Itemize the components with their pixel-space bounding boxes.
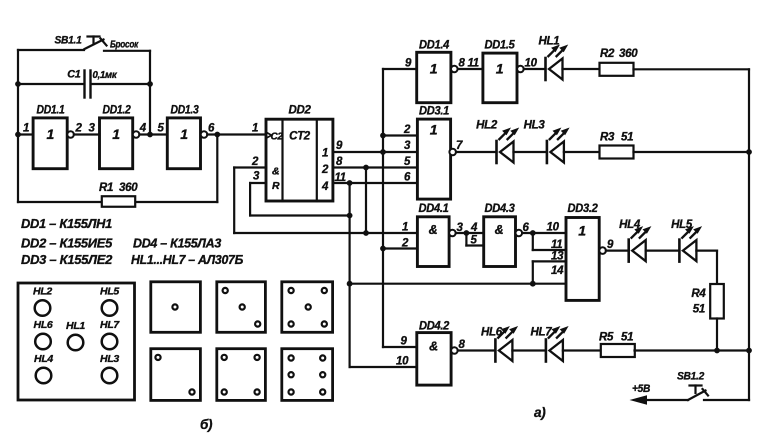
wire: HL4 to HL5 — [646, 250, 680, 252]
svg-text:DD2: DD2 — [288, 105, 311, 117]
svg-text:C1: C1 — [67, 69, 80, 81]
inversion circle DD3.2 output — [599, 247, 606, 254]
svg-text:DD4.2: DD4.2 — [419, 321, 450, 333]
wire: C1 row left segment — [18, 83, 83, 85]
svg-text:Бросок: Бросок — [110, 40, 139, 51]
inversion circle DD1.2 output — [133, 131, 140, 138]
inversion circle DD3.1 output — [449, 149, 456, 156]
junction: left rail / C1 — [15, 81, 21, 87]
junction: bus2 on DD4.1 pin1 row — [363, 230, 369, 236]
resistor R2 — [600, 63, 634, 76]
wire: bus2 vertical — [365, 168, 367, 234]
svg-text:DD4.3: DD4.3 — [485, 203, 516, 215]
wire: left rail vertical — [17, 50, 19, 202]
svg-text:HL7: HL7 — [100, 319, 120, 331]
svg-text:HL3: HL3 — [100, 353, 119, 365]
NOR gate DD3.1 — [417, 119, 450, 199]
wire: SB1.1 right contact to corner — [104, 50, 150, 52]
wire: R5 to right rail — [635, 349, 750, 351]
svg-text:10: 10 — [547, 222, 560, 234]
svg-text:R4: R4 — [691, 288, 706, 300]
junction: bus1 at pin14 row — [347, 281, 353, 287]
wire: DD4.3 out to DD3.2 pin10 — [522, 232, 566, 234]
svg-text:SB1.2: SB1.2 — [677, 371, 704, 383]
wire: stub into DD3.2 pin11 — [533, 249, 566, 251]
svg-text:HL6: HL6 — [481, 327, 503, 339]
LED panel layout (node b) — [18, 283, 135, 400]
svg-text:DD3 – К155ЛЕ2: DD3 – К155ЛЕ2 — [21, 252, 113, 267]
svg-text:10: 10 — [396, 356, 409, 368]
svg-text:DD3.2: DD3.2 — [568, 203, 599, 215]
svg-text:R5: R5 — [599, 332, 614, 344]
wire: DD3.1 out to HL2 — [456, 151, 497, 153]
LED HL3 — [547, 128, 570, 164]
wire: branch down to pin11 — [532, 233, 534, 250]
svg-text:DD3.1: DD3.1 — [419, 106, 449, 118]
wire: DD3.2 out to HL4 — [606, 250, 629, 252]
inversion circle DD1.4 output — [451, 66, 458, 73]
wire: DD4.2 out to HL6 — [458, 349, 496, 351]
wire: DD2 pin3 loop vertical — [249, 183, 251, 216]
wire: stub into DD4.3 pin5 — [466, 244, 483, 246]
svg-text:1: 1 — [112, 126, 120, 142]
resistor R3 — [600, 146, 634, 159]
junction: R1 feedback tap — [214, 132, 220, 138]
svg-text:2: 2 — [251, 156, 259, 168]
svg-text:1: 1 — [402, 222, 408, 234]
svg-text:DD4.1: DD4.1 — [419, 203, 449, 215]
svg-text:360: 360 — [119, 182, 138, 194]
wire: right rail vertical — [748, 69, 750, 400]
svg-text:CT2: CT2 — [289, 131, 311, 143]
wire: top wire to SB1.1 left contact — [18, 49, 84, 51]
svg-text:51: 51 — [621, 132, 633, 144]
svg-text:HL3: HL3 — [524, 120, 546, 132]
inversion circle DD1.3 output — [201, 131, 208, 138]
inverter DD1.3 — [167, 118, 200, 169]
counter DD2 body — [266, 119, 333, 201]
LED HL5 — [679, 226, 702, 262]
svg-text:9: 9 — [336, 140, 343, 152]
svg-text:9: 9 — [607, 239, 614, 251]
svg-text:360: 360 — [619, 48, 638, 60]
DD2 C2 input marker — [267, 132, 272, 138]
svg-text:11: 11 — [551, 239, 562, 251]
die face 5 — [282, 282, 333, 333]
junction: right vertical / C1 — [147, 81, 153, 87]
wire: DD1.5 to HL1 — [524, 68, 546, 70]
svg-text:0,1мк: 0,1мк — [93, 70, 118, 81]
svg-text:R2: R2 — [600, 48, 615, 60]
svg-text:HL1: HL1 — [66, 320, 85, 332]
svg-text:7: 7 — [456, 140, 463, 152]
wire: branch down to pin5 — [465, 233, 467, 246]
wire: DD2 pin2 stub — [234, 166, 266, 168]
wire: pin13 vertical to pin14 row — [532, 261, 534, 283]
wire: DD2 pin3 stub — [250, 182, 266, 184]
inversion circle DD4.3 output — [516, 230, 523, 237]
svg-text:10: 10 — [525, 58, 538, 70]
wire: DD3.1 pin2 stub from bus3 — [383, 134, 417, 136]
wire: DD2 pin3 loop horizontal to bus1 — [250, 214, 350, 216]
svg-text:4: 4 — [321, 181, 329, 193]
resistor R1 — [102, 196, 135, 207]
wire: row out4 (pin11 to DD3.1 pin6) — [333, 182, 418, 184]
svg-text:11: 11 — [468, 58, 479, 70]
die face 4 — [217, 349, 266, 401]
svg-text:3: 3 — [253, 171, 260, 183]
svg-text:8: 8 — [459, 339, 466, 351]
junction: bus3 on out1 row — [380, 149, 386, 155]
svg-text:1: 1 — [252, 123, 258, 135]
svg-text:9: 9 — [401, 336, 408, 348]
die face 6 — [282, 349, 333, 401]
LED HL2 — [497, 128, 520, 164]
junction: DD4.3 out branch — [530, 230, 536, 236]
svg-text:5: 5 — [158, 123, 165, 135]
wire: HL1 to R2 — [563, 68, 600, 70]
svg-text:DD1.4: DD1.4 — [419, 40, 450, 52]
wire: HL6 to HL7 — [512, 349, 546, 351]
inversion circle DD4.2 output — [451, 347, 458, 354]
junction: bus3 at DD4.1 pin2 — [380, 246, 386, 252]
inversion circle DD1.5 output — [517, 66, 524, 73]
wire: SB1.2 to +5V arrow — [646, 399, 688, 401]
svg-text:&: & — [495, 223, 504, 237]
svg-text:1: 1 — [46, 126, 54, 142]
junction: right rail / R3 row — [746, 149, 752, 155]
svg-text:9: 9 — [405, 58, 412, 70]
svg-text:1: 1 — [322, 148, 328, 160]
wire: R4 to bottom row — [716, 319, 718, 351]
svg-text:HL4: HL4 — [34, 353, 53, 365]
svg-text:HL6: HL6 — [34, 319, 53, 331]
inverter DD1.4 — [417, 52, 451, 102]
svg-text:HL5: HL5 — [671, 219, 693, 231]
resistor R4 (vertical) — [710, 284, 724, 319]
junction: pin3 loop on bus1 — [347, 213, 353, 219]
svg-text:2: 2 — [403, 124, 411, 136]
svg-text:DD1.3: DD1.3 — [171, 105, 200, 117]
svg-text:8: 8 — [459, 58, 466, 70]
wire: vertical down to R4 — [716, 251, 718, 284]
wire: R1 row — [18, 201, 217, 203]
wire: bus3 vertical — [382, 69, 384, 347]
svg-text:а): а) — [534, 405, 546, 420]
svg-text:5: 5 — [404, 156, 411, 168]
wire: R3 to right rail — [634, 151, 750, 153]
svg-text:R3: R3 — [600, 132, 615, 144]
NAND gate DD4.1 — [417, 217, 449, 267]
junction: bus1 on out4 row — [347, 180, 353, 186]
wire: DD1.4 to DD1.5 — [458, 68, 483, 70]
svg-text:R: R — [272, 180, 280, 192]
svg-text:+5В: +5В — [632, 383, 650, 395]
wire: DD1.1 to DD1.2 — [74, 133, 100, 135]
LED HL4 — [629, 226, 652, 262]
svg-text:б): б) — [200, 417, 213, 432]
svg-text:&: & — [272, 166, 279, 178]
switch SB1.1 — [85, 37, 107, 50]
wire: row out1 (pin9 to DD3.1 pin3) — [333, 151, 418, 153]
svg-text:HL1...HL7 – АЛ307Б: HL1...HL7 – АЛ307Б — [131, 252, 243, 267]
svg-text:2: 2 — [321, 164, 329, 176]
wire: R2 to right rail — [634, 68, 750, 70]
LED HL1 — [546, 45, 569, 81]
wire: DD1.2 to DD1.3 — [139, 133, 167, 135]
wire: rail corner to SB1.2 — [704, 399, 749, 401]
svg-text:8: 8 — [336, 156, 343, 168]
svg-text:DD1.1: DD1.1 — [37, 105, 65, 117]
resistor R5 — [601, 344, 635, 357]
wire: bus3 corner to DD4.2 pin9 — [383, 346, 417, 348]
die face 3 — [217, 282, 266, 333]
svg-text:3: 3 — [404, 140, 411, 152]
svg-text:4: 4 — [139, 123, 147, 135]
+5V supply arrow — [630, 395, 648, 404]
svg-text:1: 1 — [430, 122, 438, 138]
svg-text:51: 51 — [693, 304, 705, 316]
capacitor C1 — [85, 71, 91, 98]
LED HL7 — [546, 326, 569, 362]
die face 1 — [151, 282, 201, 333]
svg-text:1: 1 — [23, 123, 29, 135]
junction: bus3 top corner at DD3.1 pin2 — [380, 133, 386, 139]
switch SB1.2 — [688, 386, 708, 401]
wire: bus3 to DD1.4 input — [383, 68, 417, 70]
svg-text:6: 6 — [208, 123, 215, 135]
svg-text:2: 2 — [75, 123, 83, 135]
svg-text:51: 51 — [621, 332, 633, 344]
svg-text:&: & — [429, 223, 438, 237]
junction: right rail / bottom row — [746, 348, 752, 354]
wire: C1 row right segment — [93, 83, 151, 85]
svg-text:DD4 – К155ЛА3: DD4 – К155ЛА3 — [133, 236, 222, 251]
svg-text:DD1 – К155ЛН1: DD1 – К155ЛН1 — [21, 216, 112, 231]
svg-text:4: 4 — [470, 222, 478, 234]
junction: pin13/pin14 join — [530, 281, 536, 287]
junction: bus2 on out2 row — [363, 165, 369, 171]
wire: vertical from switch down to pin4/5 node — [149, 51, 151, 135]
wire: vertical down to R1 — [216, 135, 218, 203]
svg-text:DD2 – К155ИЕ5: DD2 – К155ИЕ5 — [21, 236, 113, 251]
junction: DD4.1 out branch — [464, 230, 470, 236]
junction: R4 on bottom row — [714, 348, 720, 354]
svg-text:HL5: HL5 — [100, 286, 119, 298]
inversion circle DD4.1 output — [449, 230, 456, 237]
wire: DD4.1 pin2 stub from bus3 — [383, 247, 417, 249]
junction: switch branch on oscillator row — [147, 132, 153, 138]
wire: DD4.1 out to DD4.3 pin4 — [456, 232, 484, 234]
wire: pin14 row from bus1 — [350, 283, 566, 285]
wire: DD3.2 pin13 stub — [533, 260, 566, 262]
svg-text:1: 1 — [578, 223, 586, 239]
svg-text:1: 1 — [496, 61, 504, 77]
wire: row out2 (pin8 to DD3.1 pin5) — [333, 166, 418, 168]
NAND gate DD4.2 — [417, 333, 451, 386]
svg-text:6: 6 — [404, 171, 411, 183]
svg-text:DD1.2: DD1.2 — [103, 105, 132, 117]
LED HL6 — [495, 326, 518, 362]
inverter DD1.1 — [33, 118, 67, 169]
wire: HL5 to corner — [696, 250, 717, 252]
die face 2 — [151, 349, 201, 401]
wire: bus1 vertical — [349, 183, 351, 367]
wire: DD2 pin2 loop horizontal to DD4.1 pin1 — [234, 232, 417, 234]
svg-text:2: 2 — [401, 238, 409, 250]
svg-text:C2: C2 — [271, 132, 284, 143]
wire: HL3 to R3 — [564, 151, 600, 153]
svg-text:SB1.1: SB1.1 — [55, 35, 82, 47]
NAND gate DD4.3 — [484, 217, 516, 267]
svg-text:HL4: HL4 — [619, 219, 641, 231]
NOR gate DD3.2 — [566, 218, 599, 301]
junction: left rail / oscillator row — [15, 132, 21, 138]
svg-text:&: & — [429, 340, 438, 354]
svg-text:14: 14 — [551, 265, 564, 277]
wire: HL2 to HL3 — [514, 151, 547, 153]
wire: bus1 corner to DD4.2 pin10 — [350, 366, 417, 368]
inverter DD1.5 — [483, 53, 517, 103]
svg-text:DD1.5: DD1.5 — [485, 40, 516, 52]
svg-text:HL1: HL1 — [539, 36, 560, 48]
svg-text:HL2: HL2 — [33, 286, 52, 298]
svg-text:3: 3 — [89, 123, 96, 135]
svg-text:R1: R1 — [99, 182, 113, 194]
svg-text:1: 1 — [430, 61, 438, 77]
wire: input to DD1.1 — [18, 133, 33, 135]
wire: DD2 pin2 loop vertical — [233, 168, 235, 234]
wire: DD1.3 output to DD2 clock input — [207, 133, 266, 135]
svg-text:1: 1 — [180, 126, 188, 142]
svg-text:HL2: HL2 — [476, 120, 498, 132]
inverter DD1.2 — [100, 118, 133, 169]
inversion circle DD1.1 output — [67, 131, 74, 138]
svg-text:13: 13 — [551, 250, 564, 262]
wire: HL7 to R5 — [563, 349, 601, 351]
svg-text:5: 5 — [471, 235, 478, 247]
svg-text:HL7: HL7 — [531, 327, 553, 339]
